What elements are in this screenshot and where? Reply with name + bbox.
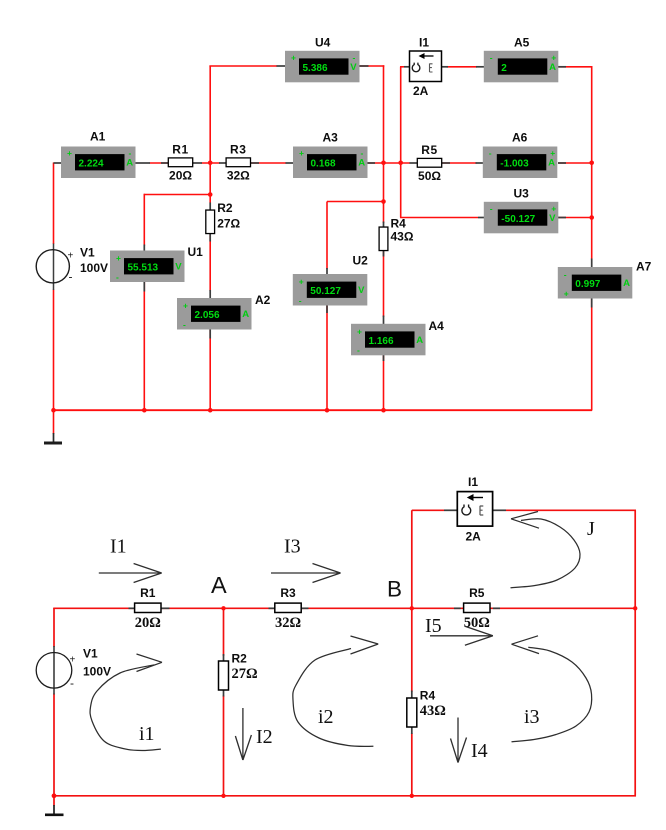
pin U2 bottom: [326, 306, 328, 314]
resistor R1 20 ohm (bottom): [135, 586, 161, 631]
svg-text:50Ω: 50Ω: [418, 169, 441, 183]
svg-text:V: V: [350, 62, 357, 73]
junction node B: [410, 606, 414, 610]
pin U2 top: [326, 268, 328, 275]
svg-text:i2: i2: [318, 706, 334, 728]
svg-text:+: +: [550, 148, 555, 158]
wire segment A3 to R5 via nodes: [367, 162, 411, 164]
wire segment R5 to A6: [442, 162, 477, 164]
svg-text:A: A: [126, 158, 133, 169]
resistor R5 50 ohm (top): [417, 143, 441, 183]
meter A3: [293, 130, 368, 178]
wire bottom right column x=635: [634, 510, 636, 796]
svg-text:I1: I1: [419, 36, 429, 50]
wire U2 column upper x=327: [326, 202, 328, 270]
svg-text:+: +: [564, 288, 569, 298]
svg-text:V: V: [549, 213, 556, 224]
svg-text:-: -: [490, 203, 493, 213]
svg-text:V: V: [175, 262, 182, 273]
meter A2: [177, 293, 271, 329]
svg-text:55.513: 55.513: [128, 263, 159, 274]
svg-text:I4: I4: [471, 740, 488, 762]
wire R2 to A2 column x=210: [209, 234, 211, 291]
junction A column on bottom bus: [221, 794, 225, 798]
loop arrow i2: [293, 636, 378, 746]
pin R2 top: [209, 203, 211, 211]
pin R1 left: [161, 162, 169, 164]
junction B column on bottom bus: [410, 794, 414, 798]
current arrow I2: [235, 708, 251, 760]
pin R3 left (bottom): [269, 607, 276, 609]
pin R5 right: [442, 162, 451, 164]
svg-text:R3: R3: [280, 586, 296, 600]
svg-text:27Ω: 27Ω: [217, 217, 240, 231]
svg-text:U3: U3: [514, 186, 530, 200]
wire segment R3 to A3: [250, 162, 287, 164]
svg-text:I1: I1: [468, 475, 478, 489]
wire node B column lower: [411, 733, 413, 796]
svg-text:+: +: [551, 203, 556, 213]
pin R3 left: [219, 162, 227, 164]
svg-text:43Ω: 43Ω: [391, 230, 414, 244]
meter A1: [61, 130, 136, 179]
wire segment to U3 left y=217.5: [400, 217, 478, 219]
wire A2 to bus column x=210: [209, 330, 211, 411]
pin R4 top (bottom): [411, 691, 413, 699]
svg-text:+: +: [551, 52, 556, 62]
svg-text:-: -: [361, 148, 364, 158]
svg-text:-: -: [564, 270, 567, 280]
pin V1 vertical (body line): [53, 244, 55, 291]
svg-text:50Ω: 50Ω: [464, 615, 490, 631]
resistor R3 32 ohm (bottom): [275, 586, 301, 631]
svg-text:-: -: [183, 319, 186, 329]
pin R5 left: [410, 162, 418, 164]
current arrow I1: [99, 564, 162, 583]
junction node A: [221, 606, 225, 610]
svg-text:-: -: [489, 148, 492, 158]
wire segment A6 to right column: [558, 162, 592, 164]
svg-text:-50.127: -50.127: [501, 214, 535, 225]
svg-text:R5: R5: [421, 143, 438, 157]
pin I1 right: [441, 66, 448, 68]
pin V1 vertical line (bottom): [53, 646, 55, 695]
svg-text:-: -: [490, 52, 493, 62]
pin R4 bottom: [383, 250, 385, 257]
junction right column R5 row: [633, 606, 637, 610]
svg-text:A: A: [416, 335, 423, 346]
svg-text:-: -: [129, 148, 132, 158]
pin A1 left: [54, 162, 62, 164]
pin U3 right: [558, 217, 566, 219]
svg-text:2.056: 2.056: [195, 310, 220, 321]
resistor R2 27 ohm (top): [206, 201, 241, 234]
svg-text:A6: A6: [512, 130, 528, 144]
svg-text:27Ω: 27Ω: [232, 666, 258, 682]
wire I1 left column x=400.7: [400, 67, 402, 218]
current source I1 2A (bottom circuit): [457, 475, 492, 544]
svg-text:2A: 2A: [466, 530, 482, 544]
svg-text:R2: R2: [232, 652, 248, 666]
svg-text:A4: A4: [429, 319, 445, 333]
wire vertical branch x=384 R4 to A4: [383, 250, 385, 317]
svg-text:32Ω: 32Ω: [227, 169, 250, 183]
svg-text:V1: V1: [80, 246, 95, 260]
resistor R3 32 ohm (top): [226, 142, 250, 182]
svg-text:R4: R4: [391, 217, 407, 231]
svg-text:I2: I2: [256, 726, 273, 748]
voltage source V1 100V (top circuit): [36, 246, 108, 284]
ground symbol (top circuit): [44, 433, 62, 443]
svg-text:R2: R2: [217, 201, 233, 215]
pin R3 right (bottom): [300, 607, 308, 609]
pin A3 right: [367, 162, 376, 164]
svg-text:U4: U4: [315, 36, 331, 50]
svg-text:R4: R4: [420, 689, 436, 703]
wire ground stub (bottom): [53, 795, 55, 806]
wire node A column upper: [223, 608, 225, 656]
svg-text:20Ω: 20Ω: [135, 615, 161, 631]
svg-text:5.386: 5.386: [303, 63, 328, 74]
svg-text:I1: I1: [110, 536, 127, 558]
svg-text:U2: U2: [353, 254, 369, 268]
svg-text:A3: A3: [323, 130, 339, 144]
pin R3 right: [250, 162, 260, 164]
pin I1 left: [404, 66, 410, 68]
pin R2 bottom: [209, 233, 211, 241]
wire node A column lower: [223, 696, 225, 797]
svg-text:100V: 100V: [83, 665, 111, 679]
junction U1 column on bus: [142, 408, 147, 413]
svg-text:-: -: [353, 52, 356, 62]
svg-text:I3: I3: [284, 536, 301, 558]
svg-text:R3: R3: [230, 142, 247, 156]
svg-text:+: +: [67, 148, 72, 158]
current arrow I4: [451, 718, 467, 763]
wire U1 column upper x=144: [143, 194, 145, 246]
wire branch to U2 horizontal y=202: [327, 201, 384, 203]
pin A2 top: [209, 290, 211, 299]
resistor R4 43 ohm (bottom): [407, 689, 446, 728]
loop arrow J: [511, 512, 581, 588]
svg-text:A1: A1: [90, 130, 106, 144]
junction A2 column on bus: [208, 408, 213, 413]
junction R1/R3/branch at (210,163): [208, 161, 213, 166]
svg-text:0.997: 0.997: [575, 279, 600, 290]
junction bottom-left ground: [52, 793, 57, 798]
pin A5 right: [558, 66, 567, 68]
pin R1 right: [192, 162, 202, 164]
pin I1 left (bottom): [444, 509, 457, 511]
svg-text:R1: R1: [140, 586, 156, 600]
svg-text:1.166: 1.166: [369, 336, 394, 347]
svg-text:+: +: [68, 251, 74, 262]
pin U4 left: [277, 65, 286, 67]
svg-text:A5: A5: [514, 36, 530, 50]
svg-text:A: A: [211, 572, 227, 598]
pin A3 left: [286, 162, 294, 164]
svg-text:-: -: [70, 676, 74, 690]
pin R4 bottom (bottom): [411, 727, 413, 734]
svg-text:A: A: [358, 158, 365, 169]
pin A4 top: [383, 316, 385, 325]
svg-text:-: -: [69, 270, 73, 284]
resistor R1 20 ohm (top): [168, 142, 192, 182]
svg-text:50.127: 50.127: [310, 286, 341, 297]
meter U1: [110, 245, 203, 282]
wire segment to U4 left: [209, 65, 277, 67]
meter U2: [293, 254, 368, 306]
svg-text:2.224: 2.224: [79, 159, 104, 170]
svg-text:32Ω: 32Ω: [275, 615, 301, 631]
meter A6: [483, 130, 558, 178]
svg-text:A: A: [242, 309, 249, 320]
pin R5 right (bottom): [493, 607, 500, 609]
wire net V1 left column lower x=53.5: [53, 290, 55, 411]
svg-text:2A: 2A: [413, 84, 429, 98]
svg-text:V: V: [358, 285, 365, 296]
pin I1 right (bottom): [492, 509, 506, 511]
junction U2 branch at (384,202): [381, 199, 386, 204]
svg-text:20Ω: 20Ω: [169, 169, 192, 183]
pin U4 right: [358, 65, 369, 67]
wire right column x=592 upper: [591, 66, 593, 260]
svg-text:43Ω: 43Ω: [420, 703, 446, 719]
ground symbol (bottom circuit): [45, 805, 64, 815]
pin R1 right (bottom): [161, 607, 170, 609]
wire node B column upper: [411, 510, 413, 692]
wire U1 column lower x=144: [143, 282, 145, 411]
junction x=384 on main bus: [381, 161, 386, 166]
wire segment U3 right to right column: [558, 217, 592, 219]
wire segment U4 right to x=384: [358, 65, 384, 67]
meter A7: [558, 260, 652, 299]
pin R2 top (bottom): [223, 654, 225, 662]
svg-text:+: +: [183, 301, 188, 311]
pin A6 left: [476, 162, 484, 164]
voltage source V1 100V (bottom circuit): [36, 647, 111, 691]
svg-text:+: +: [70, 655, 76, 666]
wire ground bus bottom y=410: [54, 409, 593, 411]
wire right column x=592 lower: [591, 298, 593, 411]
svg-text:i3: i3: [524, 706, 540, 728]
svg-text:A: A: [549, 62, 556, 73]
wire segment A1 to R1: [150, 162, 170, 164]
pin A1 right: [135, 162, 151, 164]
pin A5 left: [476, 66, 484, 68]
loop arrow i1: [90, 654, 162, 751]
meter A4: [351, 319, 444, 355]
meter U3: [484, 186, 559, 233]
wire net V1 left column upper x=53.5: [53, 163, 55, 245]
svg-text:I5: I5: [425, 615, 442, 637]
wire bottom bottom bus y=795: [54, 795, 636, 797]
wire vertical branch x=210 (node to U4/R2): [209, 66, 211, 203]
meter U4: [285, 36, 360, 83]
svg-text:A7: A7: [636, 260, 652, 274]
svg-text:i1: i1: [139, 723, 155, 745]
svg-text:A2: A2: [255, 293, 271, 307]
pin A4 bottom: [383, 353, 385, 362]
svg-text:+: +: [357, 326, 362, 336]
svg-text:R5: R5: [469, 586, 485, 600]
svg-text:A: A: [548, 158, 555, 169]
wire segment A5 right to corner: [558, 66, 592, 68]
svg-text:U1: U1: [188, 245, 204, 259]
loop arrow i3: [512, 636, 592, 742]
wire bottom left column lower x=54: [53, 694, 55, 796]
junction right column U3 row: [589, 215, 594, 220]
wire vertical branch x=384 A4 to bus: [383, 353, 385, 411]
svg-text:0.168: 0.168: [311, 159, 336, 170]
wire bottom left column upper x=54: [53, 608, 55, 647]
svg-text:+: +: [291, 52, 296, 62]
junction I1 column on main bus: [398, 161, 403, 166]
pin R2 bottom (bottom): [223, 690, 225, 697]
svg-text:+: +: [116, 253, 121, 263]
wire vertical branch x=384 upper: [383, 65, 385, 223]
wire I1 left stub: [400, 66, 404, 68]
resistor R5 50 ohm (bottom): [464, 586, 490, 631]
svg-text:-: -: [116, 272, 119, 282]
wire U2 column lower x=327: [326, 306, 328, 411]
pin U1 bottom: [143, 282, 145, 292]
pin A7 top: [591, 259, 593, 268]
svg-text:2: 2: [501, 63, 507, 74]
svg-text:V1: V1: [83, 647, 98, 661]
svg-text:-: -: [299, 295, 302, 305]
resistor R4 43 ohm (top): [379, 217, 414, 251]
current source I1 2A (top circuit): [410, 36, 442, 99]
svg-text:-1.003: -1.003: [500, 159, 529, 170]
wire I1 row left segment: [412, 509, 444, 511]
svg-text:+: +: [299, 277, 304, 287]
wire bottom top bus y=608: [53, 607, 636, 609]
pin R1 left (bottom): [129, 607, 135, 609]
current arrow I5: [430, 626, 493, 645]
pin U1 top: [143, 245, 145, 252]
pin A7 bottom: [591, 298, 593, 308]
pin R5 left (bottom): [454, 607, 461, 609]
pin A6 right: [558, 162, 566, 164]
junction right column A6 row: [589, 161, 594, 166]
resistor R2 27 ohm (bottom): [219, 652, 258, 691]
svg-text:-: -: [357, 345, 360, 355]
wire branch to U1 horizontal y=194.5: [144, 194, 210, 196]
pin U3 left: [478, 217, 485, 219]
svg-text:100V: 100V: [80, 261, 108, 275]
wire segment I1 to A5: [447, 66, 478, 68]
svg-text:R1: R1: [172, 142, 189, 156]
current arrow I3: [271, 564, 341, 583]
svg-text:J: J: [587, 518, 595, 540]
wire segment R1 to R3 via node: [202, 162, 221, 164]
svg-text:+: +: [299, 148, 304, 158]
pin R4 top: [383, 222, 385, 228]
meter A5: [484, 36, 559, 83]
junction A4 column on bus: [381, 408, 386, 413]
pin A2 bottom: [209, 330, 211, 339]
svg-text:A: A: [623, 278, 630, 289]
svg-text:B: B: [387, 577, 402, 602]
wire ground stub (top): [53, 410, 55, 434]
wire I1 row right segment: [506, 509, 636, 511]
junction U2 column on bus: [325, 408, 330, 413]
junction ground bus left: [51, 408, 56, 413]
junction U1 branch at (210,194): [208, 192, 213, 197]
